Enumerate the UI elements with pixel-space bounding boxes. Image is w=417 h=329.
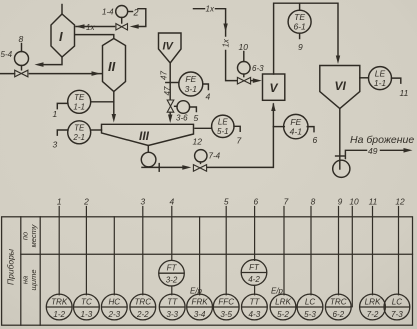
- FE 3-1 signal stub: [203, 84, 209, 90]
- node 3: [53, 140, 58, 150]
- svg-text:6-2: 6-2: [332, 310, 344, 319]
- node 11: [400, 88, 409, 98]
- label 10: [239, 42, 249, 52]
- svg-text:LC: LC: [305, 298, 316, 307]
- svg-text:5-2: 5-2: [277, 310, 289, 319]
- wire line 11: [372, 207, 374, 295]
- valve 6-3 actuator: [238, 62, 251, 75]
- vessel III drain stub: [147, 146, 149, 153]
- header на щите: [21, 270, 39, 291]
- table column divider 2: [39, 217, 41, 325]
- svg-text:1: 1: [53, 109, 58, 119]
- table frame: [2, 217, 413, 325]
- stream 1x feed wire to valve 6-3: [194, 5, 238, 81]
- wire line 3: [142, 207, 144, 295]
- node 7: [237, 136, 242, 146]
- vessel VI: [320, 66, 360, 109]
- FE 4-1 signal stub: [307, 127, 314, 132]
- instrument TC 1-3 (panel): [74, 294, 100, 320]
- label 3-6: [176, 114, 188, 123]
- svg-text:FFC: FFC: [218, 298, 234, 307]
- pump P1: [141, 152, 156, 167]
- svg-text:1x: 1x: [206, 5, 215, 14]
- instrument TRC 2-2 (panel): [130, 294, 156, 320]
- instrument FFC 3-5 (panel): [213, 294, 239, 320]
- label 7-4: [209, 152, 221, 161]
- wire line 6: [254, 207, 256, 295]
- svg-text:щите: щите: [29, 270, 38, 291]
- svg-text:4-2: 4-2: [248, 275, 260, 284]
- vessel VI outlet pipe: [336, 109, 345, 169]
- TE 6-1 signal stub: [299, 33, 301, 38]
- node 12: [193, 137, 203, 147]
- svg-text:3-6: 3-6: [176, 114, 188, 123]
- svg-text:6: 6: [313, 135, 318, 145]
- svg-text:10: 10: [239, 42, 249, 52]
- svg-text:VI: VI: [335, 79, 347, 93]
- svg-text:TRC: TRC: [134, 298, 151, 307]
- svg-text:3-3: 3-3: [166, 310, 178, 319]
- svg-text:12: 12: [395, 197, 405, 207]
- vessel I inlet stub: [61, 5, 63, 15]
- node 6: [313, 135, 318, 145]
- svg-text:FE: FE: [290, 117, 301, 127]
- label На брожение: [350, 134, 414, 146]
- svg-text:LRK: LRK: [275, 298, 291, 307]
- svg-text:1-1: 1-1: [73, 103, 85, 112]
- pump P2: [333, 160, 350, 177]
- svg-text:V: V: [270, 81, 279, 95]
- TE 2-1 signal stub: [57, 130, 68, 135]
- valve 7-4 stem: [200, 162, 202, 163]
- instrument FE 4-1: [284, 114, 308, 138]
- node 5: [194, 113, 199, 123]
- svg-text:TC: TC: [81, 298, 92, 307]
- svg-text:2-3: 2-3: [107, 310, 120, 319]
- node 9: [298, 42, 303, 52]
- svg-text:1-3: 1-3: [81, 310, 93, 319]
- LE 1-1 signal stub: [392, 78, 401, 83]
- vessel II: [103, 39, 126, 92]
- svg-text:4-3: 4-3: [249, 310, 261, 319]
- svg-text:5-4: 5-4: [1, 50, 13, 59]
- valve 5-4: [15, 70, 28, 77]
- svg-text:TE: TE: [74, 93, 85, 102]
- svg-text:8: 8: [19, 34, 24, 44]
- svg-text:5-1: 5-1: [217, 127, 229, 136]
- svg-text:месту: месту: [29, 223, 38, 247]
- stub from label 8 to valve actuator: [21, 44, 23, 52]
- instrument TE 1-1: [68, 90, 91, 113]
- instrument FT 3-2 (local): [159, 260, 185, 286]
- svg-text:Приборы: Приборы: [6, 248, 16, 285]
- instrument FE 3-1: [179, 72, 203, 96]
- label 8: [19, 34, 24, 44]
- vessel IV: [159, 33, 182, 63]
- instrument FRK 3-4 (panel): [187, 294, 213, 320]
- instrument TRK 1-2 (panel): [46, 294, 72, 320]
- wire line 2: [85, 207, 87, 295]
- outlet wire 49 with arrow: [345, 146, 412, 159]
- feed pipe to vessel II: [0, 71, 102, 76]
- svg-text:11: 11: [400, 88, 409, 98]
- valve 5-4 actuator: [15, 52, 29, 66]
- svg-text:LRK: LRK: [365, 298, 381, 307]
- svg-text:6-1: 6-1: [293, 22, 306, 32]
- svg-text:7-2: 7-2: [367, 310, 379, 319]
- svg-text:11: 11: [369, 197, 378, 207]
- wire line 7: [283, 207, 285, 295]
- pipe vessel IV to vessel III: [168, 63, 172, 123]
- svg-text:8: 8: [311, 197, 316, 207]
- wire line 9: [338, 207, 340, 295]
- svg-text:47: 47: [163, 86, 172, 95]
- svg-text:1x: 1x: [86, 23, 95, 32]
- svg-text:TRC: TRC: [330, 298, 347, 307]
- valve 5-4 stem: [21, 66, 23, 70]
- wire line 8: [310, 207, 312, 295]
- svg-text:4: 4: [169, 197, 174, 207]
- svg-text:TT: TT: [167, 298, 178, 307]
- FE 3-1 tap wire: [166, 82, 179, 84]
- svg-text:1-1: 1-1: [374, 78, 387, 88]
- wire line 1: [58, 207, 60, 295]
- label 47 lower: [163, 86, 172, 95]
- svg-text:12: 12: [193, 137, 203, 147]
- svg-text:I: I: [59, 29, 63, 44]
- header по месту: [21, 223, 39, 247]
- valve 6-3 stem: [243, 74, 245, 77]
- svg-text:LC: LC: [392, 298, 403, 307]
- stub from label 10 to actuator: [243, 52, 245, 62]
- instrument TE 2-1: [68, 121, 91, 144]
- tick and label 2: [128, 8, 139, 18]
- svg-text:1-4: 1-4: [102, 8, 114, 17]
- svg-text:3-5: 3-5: [220, 310, 232, 319]
- TE 1-1 wire to pipe: [91, 101, 114, 103]
- vessel I outlet wire with arrow: [35, 57, 63, 67]
- valve 3-6 actuator: [175, 101, 190, 114]
- transfer wire vessel V to vessel VI: [274, 3, 341, 74]
- wire vessel II to vessel III with arrow: [112, 92, 116, 123]
- svg-text:7-3: 7-3: [391, 310, 403, 319]
- feed wire for stream 2: [130, 9, 146, 29]
- wire line 5: [225, 207, 227, 295]
- LE 1-1 tap wire: [360, 77, 369, 79]
- svg-text:LE: LE: [375, 68, 386, 78]
- instrument LRK 7-2 (panel): [360, 294, 386, 320]
- svg-text:FT: FT: [249, 263, 260, 272]
- pump outlet pipe: [142, 164, 191, 172]
- svg-text:9: 9: [298, 42, 303, 52]
- svg-text:TT: TT: [249, 298, 260, 307]
- svg-text:2: 2: [83, 197, 89, 207]
- svg-text:49: 49: [368, 146, 378, 156]
- table row divider: [21, 253, 413, 255]
- svg-text:2-1: 2-1: [72, 133, 85, 142]
- table column divider 1: [20, 217, 22, 325]
- instrument LRK 5-2 (panel): [270, 294, 296, 320]
- valve 3-6 signal stub: [190, 107, 197, 112]
- svg-text:9: 9: [338, 197, 343, 207]
- wire 1x into vessel I: [76, 23, 115, 32]
- wire line unnumbered: [113, 217, 115, 295]
- TE 1-1 signal stub: [57, 103, 68, 108]
- svg-text:HC: HC: [108, 298, 120, 307]
- label 47 upper: [160, 71, 169, 80]
- TE 2-1 wire to vessel III: [91, 129, 102, 131]
- instrument LC 7-3 (panel): [384, 294, 410, 320]
- svg-text:TE: TE: [74, 124, 85, 133]
- vessel V: [263, 74, 285, 100]
- wire valve 6-3 to vessel V with arrow: [251, 78, 262, 83]
- LE 5-1 wire to vessel III: [195, 127, 212, 129]
- FE 4-1 tap wire: [273, 126, 284, 128]
- LE 5-1 signal stub: [234, 126, 240, 131]
- svg-text:1-2: 1-2: [53, 310, 65, 319]
- valve 6-3: [237, 77, 250, 84]
- vessel III: [102, 124, 194, 145]
- instrument LC 5-3 (panel): [297, 294, 323, 320]
- wire line unnumbered: [199, 217, 201, 295]
- instrument TT 3-3 (panel): [159, 294, 185, 320]
- valve 2 (1-4): [116, 24, 128, 30]
- svg-text:FRK: FRK: [192, 298, 209, 307]
- svg-text:3: 3: [140, 197, 145, 207]
- label 1-4: [102, 8, 114, 17]
- instrument HC 2-3 (panel): [101, 294, 127, 320]
- svg-text:7: 7: [284, 197, 289, 207]
- svg-text:III: III: [139, 129, 150, 143]
- svg-text:2-2: 2-2: [136, 310, 149, 319]
- valve 7-4 actuator: [195, 150, 207, 162]
- svg-text:5: 5: [194, 113, 199, 123]
- svg-text:IV: IV: [163, 41, 175, 53]
- svg-text:FE: FE: [185, 74, 196, 84]
- instrument LE 5-1: [212, 115, 234, 137]
- svg-text:LE: LE: [218, 118, 228, 127]
- instrument FT 4-2 (local): [241, 260, 267, 286]
- vessel I: [51, 14, 75, 57]
- svg-text:7: 7: [237, 136, 242, 146]
- svg-text:10: 10: [349, 197, 359, 207]
- svg-text:3-4: 3-4: [194, 310, 206, 319]
- svg-text:5-3: 5-3: [304, 310, 316, 319]
- wire line 4: [171, 207, 173, 295]
- svg-text:6: 6: [253, 197, 258, 207]
- svg-text:На брожение: На брожение: [350, 134, 414, 146]
- svg-text:3-1: 3-1: [185, 84, 198, 94]
- svg-text:5: 5: [224, 197, 229, 207]
- svg-text:4: 4: [206, 92, 211, 102]
- svg-text:TE: TE: [294, 12, 305, 22]
- svg-text:3-2: 3-2: [166, 276, 178, 285]
- valve 2 stem: [121, 18, 123, 24]
- svg-text:47: 47: [160, 71, 169, 80]
- wire line 12: [398, 207, 400, 295]
- pipe valve 7-4 to vessel V: [208, 103, 276, 168]
- svg-text:3: 3: [53, 140, 58, 150]
- svg-text:TRK: TRK: [51, 298, 68, 307]
- instrument LE 1-1: [369, 67, 392, 90]
- instrument TT 4-3 (panel): [242, 294, 268, 320]
- svg-text:1x: 1x: [221, 38, 230, 47]
- svg-text:6-3: 6-3: [252, 64, 264, 73]
- wire line 10: [351, 207, 353, 307]
- valve 7-4: [193, 165, 206, 172]
- instrument TE 6-1: [288, 10, 311, 33]
- node 4: [206, 92, 211, 102]
- valve 3-6: [167, 100, 174, 112]
- header Приборы: [6, 248, 16, 285]
- wire vessel I to vessel II top: [75, 35, 114, 38]
- svg-text:4-1: 4-1: [290, 126, 303, 136]
- TE 6-1 stub from transfer wire: [299, 3, 301, 10]
- svg-text:FT: FT: [167, 264, 178, 273]
- node 1: [53, 109, 58, 119]
- valve 2 actuator: [116, 6, 128, 18]
- label 6-3: [252, 64, 264, 73]
- instrument TRC 6-2 (panel): [325, 294, 351, 320]
- svg-text:7-4: 7-4: [209, 152, 221, 161]
- svg-text:1: 1: [57, 197, 62, 207]
- label 5-4: [1, 50, 13, 59]
- svg-text:II: II: [108, 59, 116, 74]
